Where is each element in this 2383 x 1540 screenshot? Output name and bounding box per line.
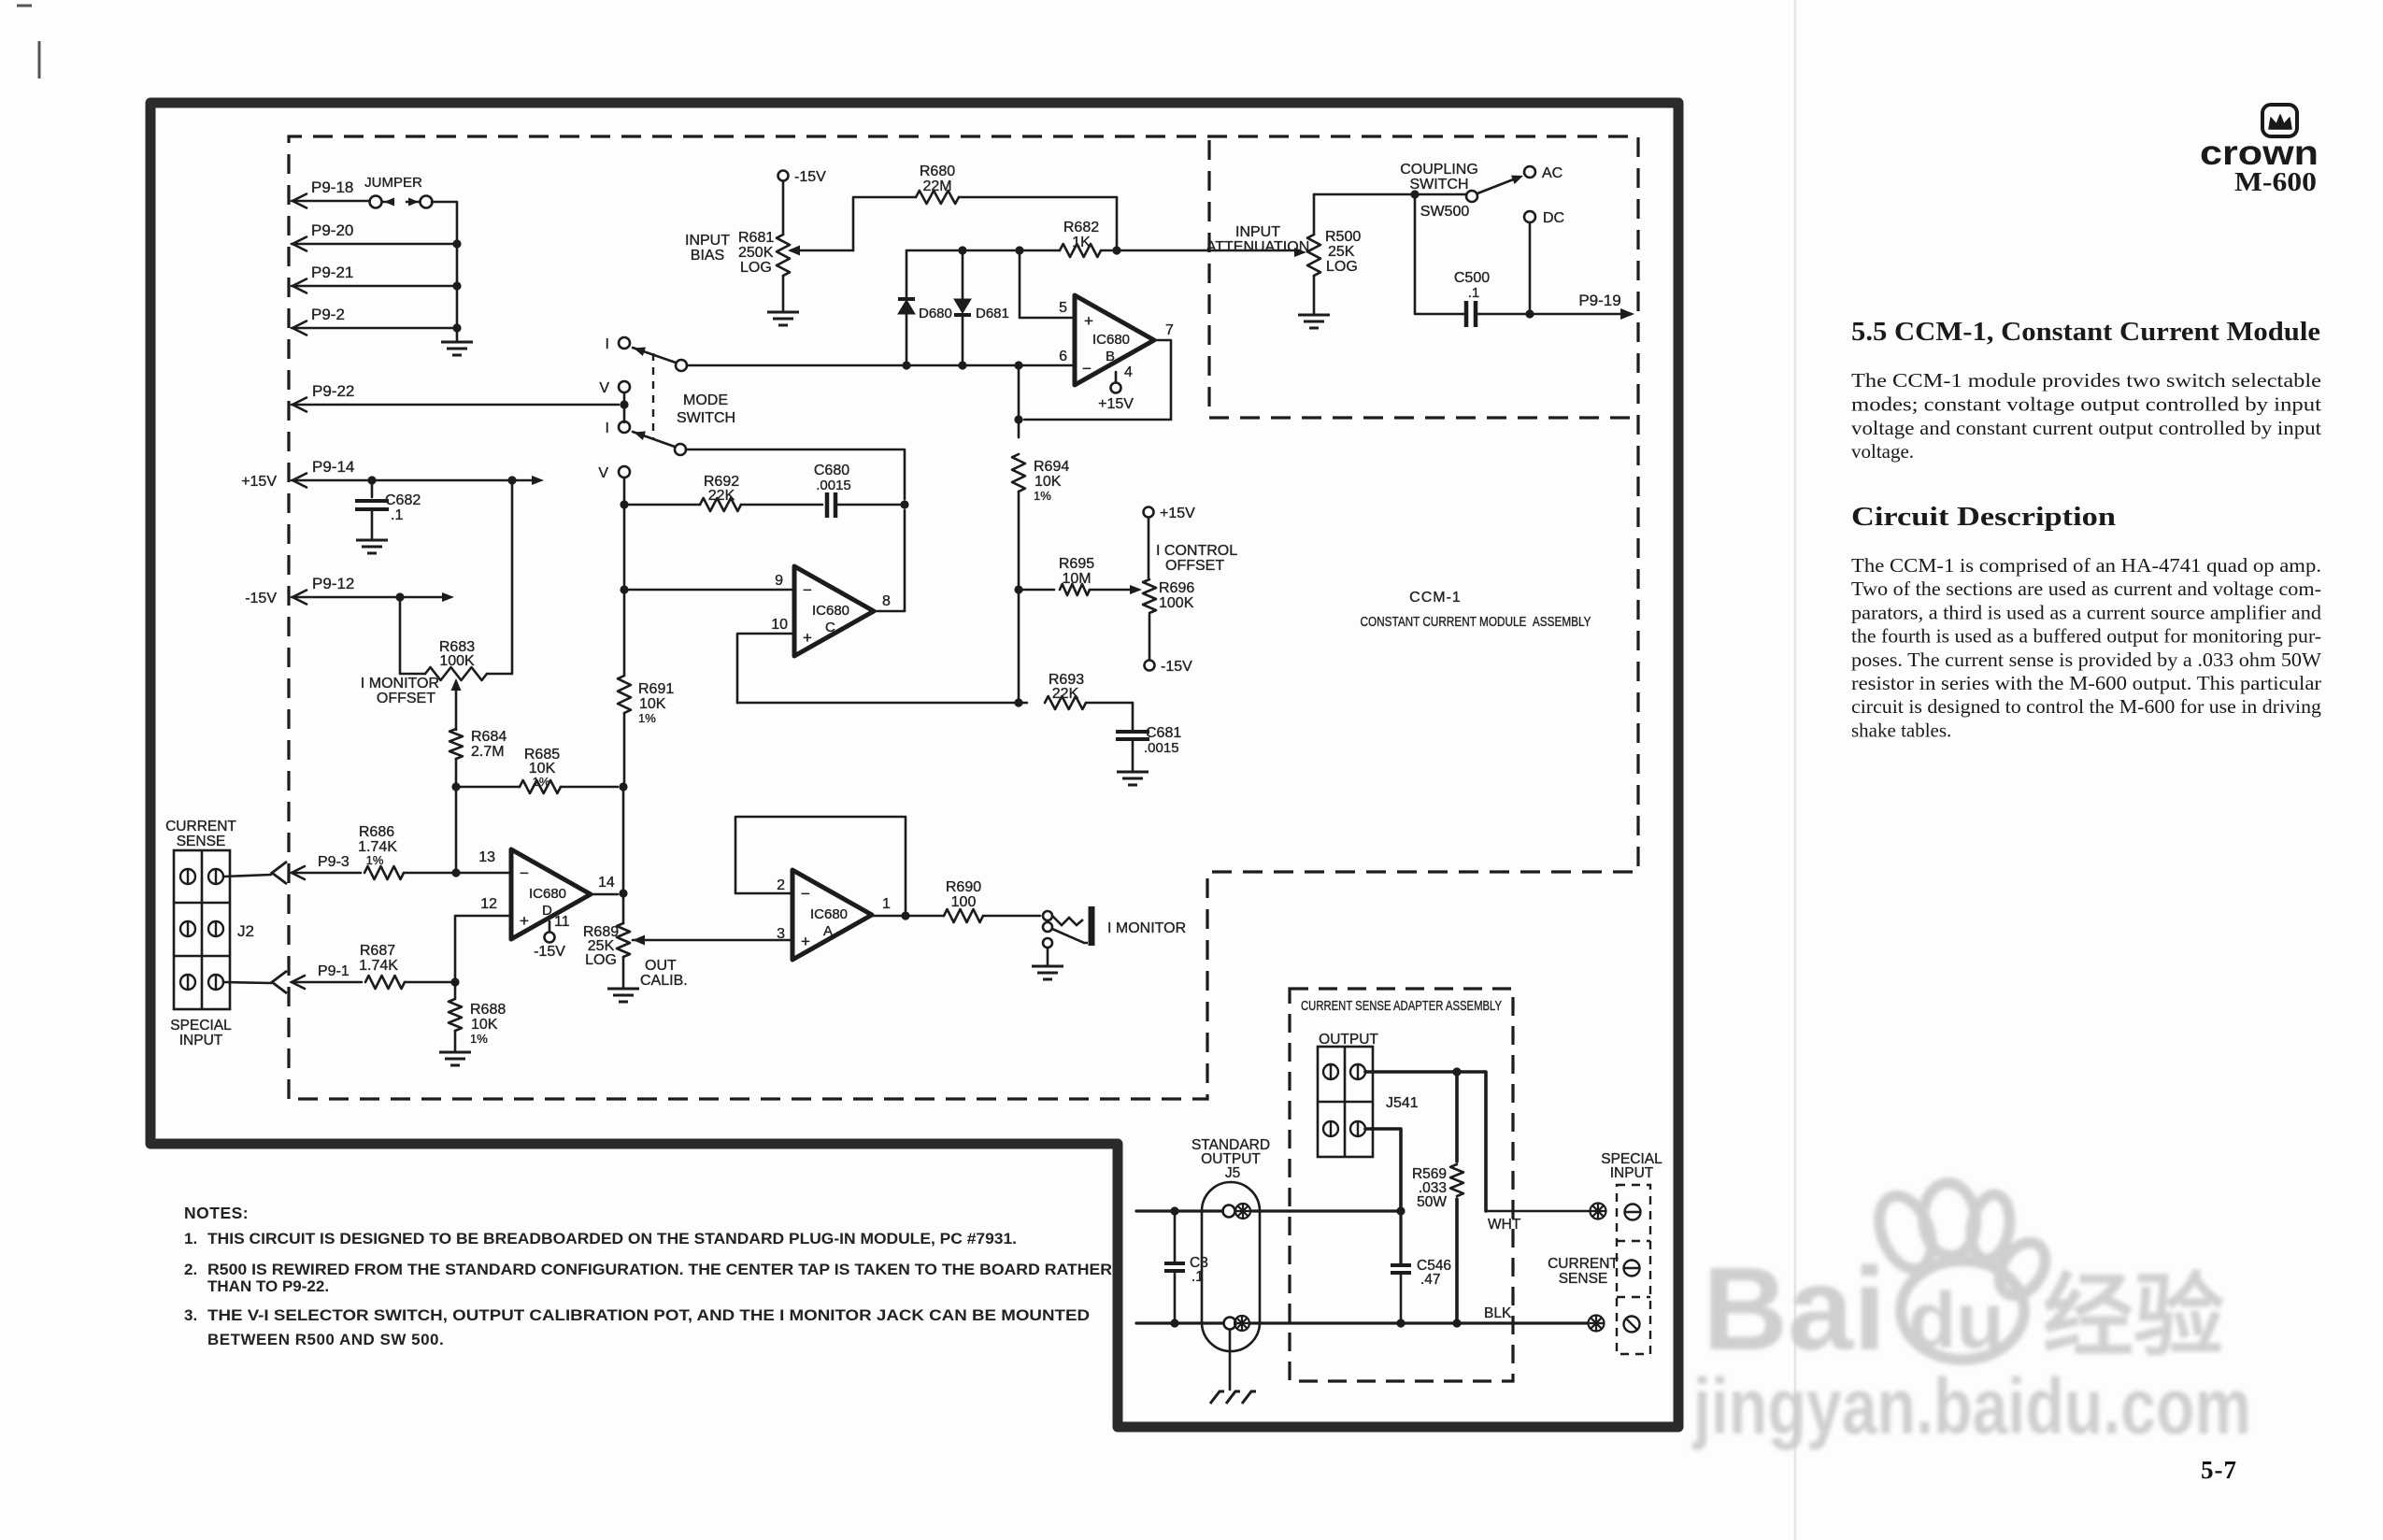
schematic border frame xyxy=(150,103,1678,1427)
mode switch upper: I contact xyxy=(606,336,630,352)
svg-text:voltage and constant current o: voltage and constant current output cont… xyxy=(1851,417,2321,439)
svg-text:R681: R681 xyxy=(738,230,774,246)
svg-text:经验: 经验 xyxy=(2043,1265,2224,1367)
connector pin P9-22 xyxy=(292,382,619,412)
svg-text:A: A xyxy=(823,923,833,939)
junction xyxy=(1452,1067,1461,1076)
WHT wire and label xyxy=(1486,1211,1589,1233)
svg-text:1: 1 xyxy=(882,896,891,912)
svg-text:BETWEEN R500 AND SW 500.: BETWEEN R500 AND SW 500. xyxy=(207,1331,444,1348)
op-amp IC680 section C xyxy=(794,566,874,656)
-15V terminal (R681) xyxy=(778,169,827,185)
wire M-600 output hot into J5 xyxy=(1136,1209,1222,1212)
mode switch lower: I contact xyxy=(606,421,630,436)
svg-text:OUT: OUT xyxy=(645,958,677,974)
mode switch upper pole SW (arm + common) xyxy=(632,344,687,371)
svg-text:D680: D680 xyxy=(919,306,952,321)
junction xyxy=(1170,1206,1178,1215)
svg-text:R680: R680 xyxy=(920,164,955,179)
Baidu watermark xyxy=(1691,1181,2251,1450)
connector pin P9-1 xyxy=(292,963,362,989)
svg-text:10K: 10K xyxy=(1035,474,1062,490)
svg-text:THIS CIRCUIT IS DESIGNED TO BE: THIS CIRCUIT IS DESIGNED TO BE BREADBOAR… xyxy=(207,1230,1017,1248)
wire pin 12 xyxy=(455,916,511,982)
svg-text:CCM-1: CCM-1 xyxy=(1409,590,1462,606)
svg-text:P9-21: P9-21 xyxy=(311,264,353,281)
resistor R692 22K xyxy=(624,474,822,511)
potentiometer R500 25K LOG xyxy=(1307,194,1361,313)
resistor R684 2.7M xyxy=(449,729,507,760)
wire to ground xyxy=(456,328,459,342)
wire summing node line xyxy=(737,702,1024,705)
svg-text:R687: R687 xyxy=(360,943,395,959)
svg-text:+15V: +15V xyxy=(1098,396,1134,412)
svg-text:+: + xyxy=(520,912,529,930)
svg-text:R684: R684 xyxy=(471,729,507,745)
solder terminal (BLK) xyxy=(1589,1316,1605,1332)
svg-text:1%: 1% xyxy=(1034,489,1051,503)
wire lower V contact down xyxy=(623,478,626,505)
svg-text:THAN TO P9-22.: THAN TO P9-22. xyxy=(207,1277,329,1295)
wire R691 to R685 node xyxy=(623,713,626,787)
resistor R688 10K 1% xyxy=(449,982,506,1050)
svg-text:SENSE: SENSE xyxy=(177,834,226,849)
svg-text:3: 3 xyxy=(777,926,785,942)
potentiometer R681 250K LOG (INPUT BIAS) xyxy=(738,181,853,310)
wire mode switch lower pole to feedback node xyxy=(686,449,905,499)
resistor R690 100 xyxy=(944,879,1040,922)
svg-text:I CONTROL: I CONTROL xyxy=(1156,543,1237,559)
capacitor C546 .47 xyxy=(1391,1211,1451,1323)
connector J5 stadium outline xyxy=(1202,1182,1260,1351)
BLK wire and label xyxy=(1401,1305,1587,1323)
svg-text:The CCM-1 is comprised of an H: The CCM-1 is comprised of an HA-4741 qua… xyxy=(1851,554,2321,577)
svg-text:.1: .1 xyxy=(1468,285,1480,301)
svg-text:D681: D681 xyxy=(976,306,1009,321)
svg-text:1%: 1% xyxy=(366,853,384,867)
wire R500 node down and to C500 xyxy=(1415,194,1464,314)
svg-text:12: 12 xyxy=(480,896,497,912)
svg-text:Circuit Description: Circuit Description xyxy=(1851,503,2116,532)
svg-text:P9-3: P9-3 xyxy=(318,854,350,870)
svg-text:C500: C500 xyxy=(1454,270,1490,286)
op-amp IC680 section B xyxy=(1075,295,1154,385)
connector pin P9-21 xyxy=(292,264,457,293)
junction xyxy=(1170,1319,1178,1327)
wire J2 to edge chevron (P9-1) xyxy=(223,971,287,993)
wire down to R691 xyxy=(623,590,626,676)
junction xyxy=(1396,1319,1405,1327)
svg-text:P9-14: P9-14 xyxy=(312,458,354,476)
svg-text:J2: J2 xyxy=(237,922,254,940)
svg-text:DC: DC xyxy=(1543,210,1564,226)
svg-text:P9-20: P9-20 xyxy=(311,221,353,239)
svg-text:10K: 10K xyxy=(471,1017,498,1033)
mode switch dashed gang line xyxy=(652,353,654,439)
mode switch lower: V contact xyxy=(598,465,630,481)
svg-text:C681: C681 xyxy=(1146,725,1181,741)
resistor R695 10M xyxy=(1019,556,1142,595)
svg-text:3.: 3. xyxy=(184,1306,197,1324)
svg-text:SWITCH: SWITCH xyxy=(1409,177,1468,192)
svg-text:P9-1: P9-1 xyxy=(318,963,350,979)
svg-text:2.7M: 2.7M xyxy=(471,744,505,760)
svg-text:R682: R682 xyxy=(1063,220,1099,235)
svg-text:2.: 2. xyxy=(184,1261,197,1278)
wire comparator node vertical xyxy=(1018,365,1020,437)
svg-text:22K: 22K xyxy=(708,488,735,504)
junction xyxy=(450,977,459,986)
junction xyxy=(1396,1206,1405,1215)
terminal block J541 xyxy=(1318,1047,1419,1157)
svg-text:R691: R691 xyxy=(638,681,674,697)
svg-text:D: D xyxy=(542,903,552,919)
pin 11 stub -15V xyxy=(534,914,570,960)
svg-text:1%: 1% xyxy=(470,1032,488,1046)
wire -15V rail down to R683 xyxy=(400,597,425,674)
ground (I MONITOR) xyxy=(1032,966,1063,979)
capacitor C680 .0015 xyxy=(814,463,905,518)
junction xyxy=(619,889,627,897)
svg-text:5: 5 xyxy=(1059,300,1067,316)
svg-text:1K: 1K xyxy=(1072,235,1091,250)
junction xyxy=(1525,309,1534,318)
junction xyxy=(620,400,628,408)
svg-text:C682: C682 xyxy=(385,492,421,508)
svg-text:22M: 22M xyxy=(922,178,951,194)
wire bus xyxy=(456,286,459,328)
svg-text:MODE: MODE xyxy=(683,392,728,408)
svg-text:-15V: -15V xyxy=(794,169,826,185)
ground (C682) xyxy=(356,540,388,553)
resistor R680 22M xyxy=(916,164,1117,204)
junction xyxy=(367,476,376,484)
svg-text:R695: R695 xyxy=(1059,556,1094,572)
connector pin P9-20 xyxy=(292,221,457,251)
svg-text:1.74K: 1.74K xyxy=(359,958,398,974)
svg-text:voltage.: voltage. xyxy=(1851,440,1914,463)
junction xyxy=(452,281,461,290)
svg-text:-15V: -15V xyxy=(245,591,277,606)
junction xyxy=(507,476,516,484)
svg-text:the fourth is used as a buffer: the fourth is used as a buffered output … xyxy=(1851,625,2321,648)
solder terminal (J5 return) xyxy=(1234,1316,1249,1331)
capacitor C682 .1 xyxy=(355,480,421,538)
svg-text:V: V xyxy=(598,465,608,481)
chassis ground (J5) xyxy=(1210,1391,1256,1404)
svg-text:5-7: 5-7 xyxy=(2201,1456,2237,1484)
svg-text:WHT: WHT xyxy=(1488,1217,1521,1233)
svg-text:shake tables.: shake tables. xyxy=(1851,719,1951,741)
wire pin 8 output up to feedback node xyxy=(874,510,905,611)
wire down to pin9 node xyxy=(623,505,626,590)
wire attenuation line to R500 wiper xyxy=(1117,250,1299,252)
svg-text:P9-2: P9-2 xyxy=(311,306,345,323)
crown logo icon xyxy=(2262,105,2297,136)
J5 hot contact xyxy=(1223,1205,1235,1218)
junction xyxy=(958,246,966,254)
junction xyxy=(958,361,966,369)
svg-text:.1: .1 xyxy=(1191,1269,1204,1285)
svg-text:Two of the sections are used a: Two of the sections are used as current … xyxy=(1851,577,2321,600)
wire DC down to C500 output node xyxy=(1529,222,1532,314)
junction xyxy=(1014,361,1022,369)
junction xyxy=(901,911,909,920)
svg-text:CURRENT: CURRENT xyxy=(1548,1256,1619,1272)
svg-text:+: + xyxy=(801,933,810,950)
svg-text:100K: 100K xyxy=(439,653,475,669)
svg-text:−: − xyxy=(801,885,810,903)
ground (R500) xyxy=(1298,315,1330,328)
svg-text:THE V-I SELECTOR SWITCH, OUTPU: THE V-I SELECTOR SWITCH, OUTPUT CALIBRAT… xyxy=(207,1306,1090,1324)
svg-text:9: 9 xyxy=(775,573,783,589)
svg-text:J541: J541 xyxy=(1386,1095,1419,1111)
wire R500 top to coupling switch xyxy=(1314,193,1415,196)
potentiometer R696 100K (I CONTROL OFFSET) xyxy=(1143,506,1195,675)
solder terminal (WHT) xyxy=(1591,1204,1606,1219)
svg-text:R688: R688 xyxy=(470,1002,506,1018)
diode D681 xyxy=(954,250,1009,364)
svg-text:−: − xyxy=(520,864,529,882)
resistor R686 1.74K 1% xyxy=(358,824,456,879)
connector pin P9-18 xyxy=(292,178,369,208)
wire diode top rail xyxy=(906,250,963,252)
svg-text:LOG: LOG xyxy=(740,260,772,276)
connector pin P9-14 (+15V) xyxy=(241,458,544,490)
special input dashed terminal strip xyxy=(1617,1185,1650,1354)
scan artifact marks top-left xyxy=(17,6,39,78)
svg-text:IC680: IC680 xyxy=(812,603,849,619)
svg-text:-15V: -15V xyxy=(534,944,565,960)
svg-text:The CCM-1 module provides: The CCM-1 module provides two switch sel… xyxy=(1851,369,2321,392)
screw terminal (special input hot) xyxy=(1625,1205,1641,1220)
resistor R682 1K xyxy=(1020,220,1117,257)
svg-text:7: 7 xyxy=(1165,322,1174,338)
junction xyxy=(1014,415,1022,423)
svg-text:8: 8 xyxy=(882,593,891,609)
svg-text:250K: 250K xyxy=(738,245,774,261)
svg-text:ATTENUATION: ATTENUATION xyxy=(1206,239,1310,255)
connector pin P9-3 xyxy=(292,854,361,879)
svg-text:10: 10 xyxy=(771,617,788,633)
wire J5 hot to adapter xyxy=(1250,1209,1401,1212)
svg-text:LOG: LOG xyxy=(585,952,617,968)
pin 4 stub +15V xyxy=(1098,364,1134,412)
capacitor C3 .1 xyxy=(1164,1211,1208,1323)
svg-text:CONSTANT CURRENT MODULE ASSEM: CONSTANT CURRENT MODULE ASSEMBLY xyxy=(1361,614,1591,630)
svg-text:+: + xyxy=(803,629,812,647)
connector pin P9-2 xyxy=(292,306,457,335)
svg-text:JUMPER: JUMPER xyxy=(364,175,422,191)
screw terminal (current sense) xyxy=(1624,1261,1640,1276)
wire J5 shell to chassis ground xyxy=(1229,1330,1232,1390)
I MONITOR phone jack xyxy=(1043,906,1186,948)
junction xyxy=(620,500,628,508)
svg-text:R694: R694 xyxy=(1034,459,1069,475)
CCM-1 module dashed boundary xyxy=(289,136,1638,1099)
ground (C681) xyxy=(1117,772,1149,785)
svg-text:J5: J5 xyxy=(1225,1165,1240,1181)
svg-text:I: I xyxy=(606,336,609,352)
svg-text:poses. The current sense is p: poses. The current sense is provided by … xyxy=(1851,649,2321,671)
junction xyxy=(902,361,910,369)
resistor R691 10K 1% xyxy=(618,676,674,725)
svg-text:P9-12: P9-12 xyxy=(312,575,354,592)
capacitor C681 .0015 xyxy=(1116,703,1181,770)
svg-text:4: 4 xyxy=(1124,364,1133,380)
switch SW500 (coupling) xyxy=(1415,171,1525,220)
junction xyxy=(451,782,460,791)
svg-text:+: + xyxy=(1084,312,1093,330)
svg-text:LOG: LOG xyxy=(1326,259,1358,275)
resistor R693 22K xyxy=(1024,672,1133,709)
svg-text:CALIB.: CALIB. xyxy=(640,973,688,989)
svg-text:14: 14 xyxy=(598,875,615,891)
svg-text:IC680: IC680 xyxy=(529,886,566,902)
svg-text:NOTES:: NOTES: xyxy=(184,1204,249,1222)
mode switch upper: V contact xyxy=(599,380,630,396)
solder terminal (J5 hot) xyxy=(1235,1204,1250,1219)
svg-text:-15V: -15V xyxy=(1161,659,1192,675)
wire R680 down to attenuation line xyxy=(1116,197,1119,250)
potentiometer R689 25K LOG (OUT CALIB) xyxy=(583,923,792,987)
wire pin 1 output xyxy=(872,915,944,918)
mode switch lower pole SW (arm + common) xyxy=(632,428,686,455)
connector pin P9-19 xyxy=(1530,292,1634,320)
wire pin 7 output feedback xyxy=(1024,340,1171,420)
wire M-600 output return into J5 xyxy=(1136,1321,1223,1324)
wire J5 return to BLK line xyxy=(1249,1321,1401,1324)
ground (P9-2 bus) xyxy=(441,342,473,355)
svg-text:.1: .1 xyxy=(391,507,403,523)
svg-text:+15V: +15V xyxy=(1160,506,1195,521)
junction xyxy=(1014,585,1022,593)
DC contact xyxy=(1524,210,1564,226)
svg-text:I: I xyxy=(606,421,609,436)
svg-text:INPUT: INPUT xyxy=(1235,224,1280,240)
svg-text:C680: C680 xyxy=(814,463,849,478)
svg-text:I MONITOR: I MONITOR xyxy=(361,676,439,692)
ground (R688) xyxy=(439,1052,471,1065)
wire pin 9 xyxy=(624,589,794,592)
svg-text:INPUT: INPUT xyxy=(179,1033,223,1048)
svg-text:P9-18: P9-18 xyxy=(311,178,353,196)
capacitor C500 .1 xyxy=(1454,270,1530,327)
wire to WHT terminal xyxy=(1457,1072,1486,1211)
wire node down to IC680D output node xyxy=(622,787,625,893)
svg-text:P9-22: P9-22 xyxy=(312,382,354,400)
current sense adapter assembly dashed box xyxy=(1290,989,1513,1381)
svg-text:SPECIAL: SPECIAL xyxy=(170,1018,232,1034)
wire pin 13 xyxy=(456,872,511,875)
svg-text:+15V: +15V xyxy=(241,474,277,490)
svg-text:100: 100 xyxy=(951,894,977,910)
wire J541 upper to R569/WHT xyxy=(1365,1070,1457,1074)
junction xyxy=(452,323,461,332)
svg-text:parators, a third is used as a: parators, a third is used as a current s… xyxy=(1851,601,2322,623)
svg-text:2: 2 xyxy=(777,877,785,893)
svg-text:50W: 50W xyxy=(1417,1194,1447,1210)
screw terminal (special input return) xyxy=(1624,1317,1640,1333)
wire V-I contact tie xyxy=(623,392,626,422)
wire J541 lower down xyxy=(1365,1129,1401,1211)
wire xyxy=(963,250,1020,252)
svg-text:resistor in series with the M-: resistor in series with the M-600 output… xyxy=(1851,672,2321,694)
resistor R569 .033 50W xyxy=(1412,1072,1463,1323)
svg-text:C: C xyxy=(825,620,835,635)
terminal block J2 xyxy=(174,850,254,1009)
svg-text:B: B xyxy=(1106,349,1115,364)
wire R684 to node xyxy=(455,759,458,787)
svg-text:R686: R686 xyxy=(359,824,394,840)
resistor R685 10K 1% xyxy=(456,747,618,793)
junction xyxy=(395,592,404,601)
diode D680 xyxy=(898,250,952,364)
J5 return contact xyxy=(1224,1318,1236,1330)
svg-text:M-600: M-600 xyxy=(2234,167,2317,197)
svg-text:OFFSET: OFFSET xyxy=(1165,558,1224,574)
svg-text:P9-19: P9-19 xyxy=(1578,292,1620,309)
svg-text:R690: R690 xyxy=(946,879,981,895)
svg-text:COUPLING: COUPLING xyxy=(1400,162,1478,178)
potentiometer R683 100K (I MONITOR OFFSET) xyxy=(425,639,487,730)
svg-text:V: V xyxy=(599,380,609,396)
junction xyxy=(451,868,460,877)
svg-text:10M: 10M xyxy=(1062,571,1091,587)
svg-text:10K: 10K xyxy=(639,696,666,712)
svg-text:crown: crown xyxy=(2200,134,2319,172)
ground (R681) xyxy=(767,312,799,325)
wire pin 10 U-loop to summing line xyxy=(737,634,794,703)
svg-text:SW500: SW500 xyxy=(1420,204,1470,220)
svg-text:jingyan.baidu.com: jingyan.baidu.com xyxy=(1691,1362,2251,1450)
svg-text:modes; constant voltage out: modes; constant voltage output controlle… xyxy=(1851,392,2321,415)
svg-text:I MONITOR: I MONITOR xyxy=(1107,920,1186,936)
svg-text:100K: 100K xyxy=(1159,595,1194,611)
wire pin 2 feedback loop xyxy=(735,817,906,911)
svg-text:CURRENT: CURRENT xyxy=(165,819,236,834)
resistor R687 1.74K 1% xyxy=(359,943,455,989)
svg-text:IC680: IC680 xyxy=(1092,332,1130,348)
junction xyxy=(900,500,908,508)
wire jack sleeve to ground xyxy=(1047,948,1049,964)
junction xyxy=(1410,190,1419,198)
svg-text:.0015: .0015 xyxy=(816,478,851,493)
svg-text:CURRENT SENSE ADAPTER ASSEMBLY: CURRENT SENSE ADAPTER ASSEMBLY xyxy=(1301,998,1502,1014)
svg-text:1.: 1. xyxy=(184,1230,197,1248)
wire pin5 from attenuation node xyxy=(1020,250,1075,318)
wire bus xyxy=(456,244,459,286)
svg-text:.47: .47 xyxy=(1420,1272,1441,1288)
svg-text:BIAS: BIAS xyxy=(691,248,724,264)
wire pin 14 output xyxy=(591,893,618,896)
op-amp IC680 section D xyxy=(511,849,591,939)
wire +15V rail down to R683 xyxy=(487,480,512,674)
svg-text:1%: 1% xyxy=(533,775,550,789)
dashed notch around coupling switch bay xyxy=(1209,140,1638,418)
ground (R689) xyxy=(607,989,639,1002)
svg-text:5.5 CCM-1, Constant Current M: 5.5 CCM-1, Constant Current Module xyxy=(1851,318,2320,347)
svg-text:SWITCH: SWITCH xyxy=(677,410,735,426)
svg-text:OFFSET: OFFSET xyxy=(377,691,435,706)
svg-text:INPUT: INPUT xyxy=(685,233,730,249)
junction xyxy=(452,239,461,248)
svg-text:SENSE: SENSE xyxy=(1559,1271,1608,1287)
wire pin 6 line (mode switch upper pole to inverting input) xyxy=(687,364,1075,367)
svg-text:INPUT: INPUT xyxy=(1610,1165,1654,1181)
wire node to R689 xyxy=(622,893,625,923)
svg-text:13: 13 xyxy=(478,849,495,865)
